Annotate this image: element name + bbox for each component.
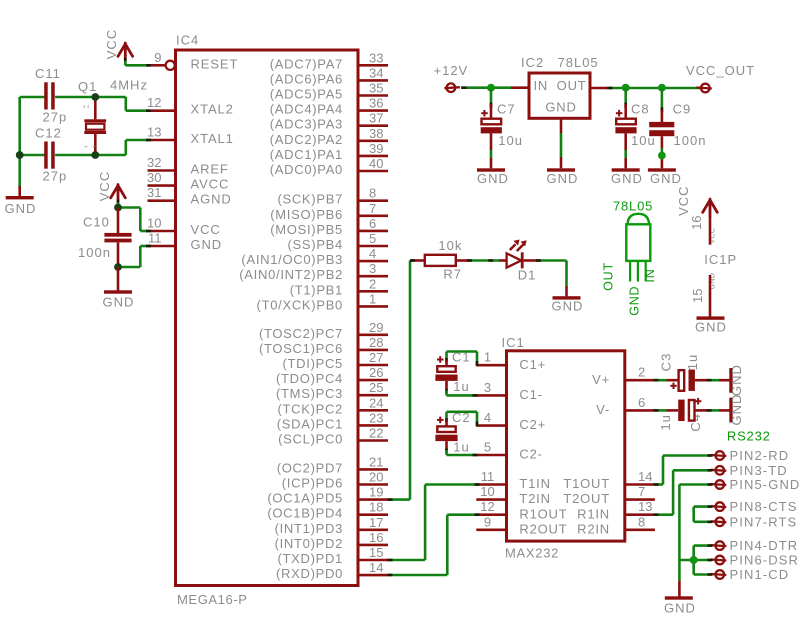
IC4 pin 13 XTAL1 xyxy=(147,125,234,147)
svg-text:IN: IN xyxy=(643,268,657,282)
svg-text:20: 20 xyxy=(369,470,383,485)
IC4 pin 21 (OC2)PD7 xyxy=(277,454,388,475)
svg-text:26: 26 xyxy=(369,365,383,380)
svg-text:V+: V+ xyxy=(592,372,610,387)
svg-text:(AIN0/INT2)PB2: (AIN0/INT2)PB2 xyxy=(239,267,343,282)
svg-text:(T0/XCK)PB0: (T0/XCK)PB0 xyxy=(257,297,343,312)
svg-text:GND: GND xyxy=(650,171,682,186)
ground below D1 xyxy=(552,296,584,313)
IC4 pin 39 (ADC1)PA1 xyxy=(270,141,388,162)
svg-text:32: 32 xyxy=(147,155,161,170)
svg-text:C7: C7 xyxy=(497,102,516,117)
voltage regulator IC2 78L05 xyxy=(521,55,599,118)
svg-text:GND: GND xyxy=(547,171,579,186)
svg-text:4: 4 xyxy=(369,246,376,261)
ground right of C3 (rotated) xyxy=(729,364,744,396)
IC4 pin 38 (ADC2)PA2 xyxy=(270,126,388,147)
svg-text:GND: GND xyxy=(477,171,509,186)
IC4 pin 12 XTAL2 xyxy=(147,95,234,117)
svg-text:C3: C3 xyxy=(659,353,674,372)
svg-text:16: 16 xyxy=(369,530,383,545)
svg-text:T1OUT: T1OUT xyxy=(563,476,610,491)
svg-text:‹‹: ‹‹ xyxy=(83,102,91,111)
connector PIN6-DSR xyxy=(711,553,799,568)
svg-text:(SS)PB4: (SS)PB4 xyxy=(288,237,343,252)
IC4 pin 2 (T1)PB1 xyxy=(290,276,388,297)
svg-text:R1IN: R1IN xyxy=(577,506,610,521)
svg-text:6: 6 xyxy=(638,395,645,410)
IC4 pin 17 (INT1)PD3 xyxy=(275,515,388,536)
svg-text:11: 11 xyxy=(148,231,162,246)
svg-text:22: 22 xyxy=(369,426,383,441)
IC4 pin 15 (TXD)PD1 xyxy=(277,545,388,566)
IC4 pin 10 VCC xyxy=(147,216,221,238)
svg-text:C1: C1 xyxy=(452,350,471,365)
svg-text:(INT1)PD3: (INT1)PD3 xyxy=(275,521,343,536)
svg-text:(TDO)PC4: (TDO)PC4 xyxy=(276,371,343,386)
resistor R7 10k xyxy=(410,238,470,281)
svg-text:23: 23 xyxy=(369,410,383,425)
microcontroller IC4 MEGA16-P body xyxy=(176,33,359,608)
svg-text:R1OUT: R1OUT xyxy=(519,506,567,521)
svg-text:10: 10 xyxy=(147,216,161,231)
svg-text:AVCC: AVCC xyxy=(191,177,230,192)
IC1 pin 7 T2OUT xyxy=(563,484,655,506)
svg-text:10u: 10u xyxy=(498,133,523,148)
ground below crystal rail xyxy=(5,186,37,216)
wire R1IN to PIN3-TD xyxy=(654,469,713,516)
svg-text:4MHz: 4MHz xyxy=(110,78,148,93)
svg-text:R2OUT: R2OUT xyxy=(519,521,567,536)
svg-text:C12: C12 xyxy=(35,126,62,141)
IC4 pin 8 (SCK)PB7 xyxy=(277,186,388,207)
IC4 pin 1 (T0/XCK)PB0 xyxy=(257,291,388,312)
IC4 pin 25 (TMS)PC3 xyxy=(276,380,388,401)
svg-text:PIN6-DSR: PIN6-DSR xyxy=(730,553,799,568)
svg-text:(MISO)PB6: (MISO)PB6 xyxy=(270,207,343,222)
IC4 pin 16 (INT0)PD2 xyxy=(275,530,388,551)
svg-text:VCC: VCC xyxy=(676,185,691,215)
IC1 pin 8 R2IN xyxy=(577,514,655,536)
IC1P label xyxy=(704,252,737,267)
svg-text:GND: GND xyxy=(729,364,744,396)
svg-text:19: 19 xyxy=(369,485,383,500)
svg-text:12: 12 xyxy=(147,95,161,110)
svg-text:IN: IN xyxy=(534,78,549,93)
svg-text:R2IN: R2IN xyxy=(577,521,610,536)
svg-text:3: 3 xyxy=(484,380,491,395)
svg-text:C2: C2 xyxy=(452,410,471,425)
svg-text:(SDA)PC1: (SDA)PC1 xyxy=(277,416,343,431)
svg-text:GND: GND xyxy=(628,286,642,316)
regulator package 78L05 (TO-92) xyxy=(602,199,657,316)
ground below C9 xyxy=(648,168,682,186)
svg-text:C8: C8 xyxy=(631,102,650,117)
svg-text:37: 37 xyxy=(369,111,383,126)
crystal Q1 4MHz xyxy=(78,78,148,156)
svg-text:27p: 27p xyxy=(43,110,68,125)
IC4 pin 18 (OC1B)PD4 xyxy=(267,500,388,521)
IC4 pin 14 (RXD)PD0 xyxy=(276,560,388,581)
net label RS232 xyxy=(727,428,771,443)
IC4 pin 37 (ADC3)PA3 xyxy=(270,111,388,132)
svg-text:GND: GND xyxy=(545,99,576,114)
svg-text:78L05: 78L05 xyxy=(558,55,599,70)
wire XTAL bottom rail xyxy=(20,139,151,155)
svg-text:VCC_OUT: VCC_OUT xyxy=(686,63,755,78)
svg-text:9: 9 xyxy=(484,514,491,529)
IC4 pin 28 (TOSC1)PC6 xyxy=(259,335,388,356)
wire IC4 pin19 to R7 xyxy=(388,261,413,501)
svg-text:Q1: Q1 xyxy=(78,79,97,94)
svg-text:OUT: OUT xyxy=(602,262,616,291)
wire IC2 OUT to VCC_OUT xyxy=(590,87,700,90)
wire C10 to pin11 xyxy=(118,245,151,267)
svg-text:GND: GND xyxy=(103,295,135,310)
svg-text:100n: 100n xyxy=(78,245,111,260)
svg-text:C2+: C2+ xyxy=(519,417,546,432)
svg-text:27p: 27p xyxy=(43,169,68,184)
connector PIN7-RTS xyxy=(711,514,797,529)
IC1 pin 9 R2OUT xyxy=(476,514,567,536)
svg-text:(OC1A)PD5: (OC1A)PD5 xyxy=(267,491,343,506)
IC1 pin 4 C2+ xyxy=(476,410,546,432)
IC1 pin 11 T1IN xyxy=(476,469,550,491)
capacitor C8 10u xyxy=(615,88,655,169)
svg-text:2: 2 xyxy=(638,365,645,380)
svg-text:17: 17 xyxy=(369,515,383,530)
svg-text:(OC2)PD7: (OC2)PD7 xyxy=(277,460,343,475)
svg-text:(TXD)PD1: (TXD)PD1 xyxy=(277,551,343,566)
svg-text:PIN5-GND: PIN5-GND xyxy=(730,477,801,492)
capacitor C3 1u xyxy=(659,353,700,391)
RS232 driver IC1 MAX232 body xyxy=(502,335,625,561)
capacitor C1 1u xyxy=(435,350,478,397)
junction DSR group xyxy=(690,556,698,564)
svg-text:3: 3 xyxy=(369,261,376,276)
IC4 pin 5 (SS)PB4 xyxy=(288,231,388,252)
IC1 pin 10 T2IN xyxy=(476,484,550,506)
IC4 pin 11 GND xyxy=(148,231,223,253)
svg-text:(INT0)PD2: (INT0)PD2 xyxy=(275,536,343,551)
junction C7 tap xyxy=(487,84,495,92)
svg-text:40: 40 xyxy=(369,156,383,171)
svg-text:V-: V- xyxy=(596,402,610,417)
IC1 pin 14 T1OUT xyxy=(563,469,655,491)
wire C4 to ground xyxy=(695,409,730,412)
svg-text:(TOSC1)PC6: (TOSC1)PC6 xyxy=(259,341,343,356)
ground right of C4 (rotated) xyxy=(729,394,744,426)
svg-text:12: 12 xyxy=(480,499,494,514)
wire D1 to ground xyxy=(536,259,567,296)
svg-text:+12V: +12V xyxy=(434,63,469,78)
svg-text:14: 14 xyxy=(638,469,652,484)
wire PIN8-CTS / PIN7-RTS loop xyxy=(694,505,713,523)
IC4 pin 30 AVCC xyxy=(147,170,229,192)
IC4 pin 26 (TDO)PC4 xyxy=(276,365,388,386)
svg-text:D1: D1 xyxy=(518,268,537,283)
svg-text:34: 34 xyxy=(369,65,383,80)
IC4 pin 33 (ADC7)PA7 xyxy=(270,50,388,71)
svg-text:8: 8 xyxy=(369,186,376,201)
supply VCC at IC1P pin16 xyxy=(676,185,717,244)
svg-text:(ICP)PD6: (ICP)PD6 xyxy=(282,476,343,491)
svg-text:8: 8 xyxy=(638,514,645,529)
IC4 pin 40 (ADC0)PA0 xyxy=(270,156,388,177)
wire PIN5-GND to ground xyxy=(679,483,712,596)
svg-text:GND: GND xyxy=(5,201,37,216)
LED D1 xyxy=(499,240,538,283)
IC4 pin 24 (TCK)PC2 xyxy=(277,395,388,416)
IC4 pin 32 AREF xyxy=(147,155,229,177)
svg-text:38: 38 xyxy=(369,126,383,141)
svg-text:6: 6 xyxy=(369,216,376,231)
connector PIN5-GND xyxy=(711,477,801,492)
svg-text:VCC: VCC xyxy=(191,222,221,237)
svg-text:(TMS)PC3: (TMS)PC3 xyxy=(276,386,343,401)
svg-text:R7: R7 xyxy=(443,266,462,281)
wire V+ to C3 xyxy=(654,379,679,382)
junction VCC/C10 top xyxy=(114,204,122,212)
svg-text:18: 18 xyxy=(369,500,383,515)
svg-text:PIN3-TD: PIN3-TD xyxy=(730,463,788,478)
svg-text:GND: GND xyxy=(695,320,727,335)
wire VCC to pin10 xyxy=(118,208,151,233)
svg-text:PIN4-DTR: PIN4-DTR xyxy=(730,538,799,553)
svg-text:11: 11 xyxy=(481,469,495,484)
IC1P pin15 to ground xyxy=(690,273,727,335)
svg-text:T1IN: T1IN xyxy=(519,476,550,491)
svg-text:10k: 10k xyxy=(438,238,462,253)
svg-text:T2IN: T2IN xyxy=(519,491,550,506)
svg-text:31: 31 xyxy=(147,185,161,200)
IC4 pin 34 (ADC6)PA6 xyxy=(270,65,388,86)
IC4 pin 3 (AIN0/INT2)PB2 xyxy=(239,261,388,282)
junction Q1 bottom xyxy=(91,151,99,159)
svg-text:MEGA16-P: MEGA16-P xyxy=(177,592,248,607)
wire left vertical rail to ground xyxy=(18,97,21,186)
capacitor C2 1u xyxy=(435,410,478,456)
IC4 pin 19 (OC1A)PD5 xyxy=(267,485,388,506)
svg-text:RESET: RESET xyxy=(191,56,239,71)
svg-text:13: 13 xyxy=(147,125,161,140)
svg-text:4: 4 xyxy=(484,410,491,425)
svg-text:13: 13 xyxy=(638,499,652,514)
capacitor C4 1u xyxy=(658,398,703,432)
svg-text:PIN8-CTS: PIN8-CTS xyxy=(730,499,798,514)
supply VCC at IC4 power xyxy=(97,171,125,208)
connector PIN2-RD xyxy=(711,448,789,463)
svg-text:24: 24 xyxy=(369,395,383,410)
svg-text:(TOSC2)PC7: (TOSC2)PC7 xyxy=(259,326,343,341)
ground below RS232 xyxy=(664,596,696,615)
svg-text:OUT: OUT xyxy=(557,78,587,93)
svg-text:33: 33 xyxy=(369,50,383,65)
svg-text:AGND: AGND xyxy=(191,192,232,207)
svg-text:14: 14 xyxy=(369,560,383,575)
capacitor C10 100n xyxy=(78,208,132,268)
svg-text:10: 10 xyxy=(480,484,494,499)
svg-text:100n: 100n xyxy=(674,133,707,148)
svg-text:(T1)PB1: (T1)PB1 xyxy=(290,282,343,297)
wire TXD pin15 to T1IN xyxy=(388,483,480,561)
svg-text:1u: 1u xyxy=(658,414,673,430)
svg-text:MAX232: MAX232 xyxy=(505,546,559,561)
svg-text:(SCL)PC0: (SCL)PC0 xyxy=(278,432,343,447)
svg-text:7: 7 xyxy=(638,484,645,499)
capacitor C9 100n xyxy=(649,88,706,169)
svg-text:PIN7-RTS: PIN7-RTS xyxy=(730,514,798,529)
IC4 pin 6 (MOSI)PB5 xyxy=(270,216,388,237)
ground below C8 xyxy=(611,168,643,186)
svg-text:(ADC6)PA6: (ADC6)PA6 xyxy=(270,71,343,86)
wire V- to C4 xyxy=(654,409,679,412)
supply VCC at RESET xyxy=(104,29,151,67)
IC1 pin 13 R1IN xyxy=(577,499,655,521)
svg-text:2: 2 xyxy=(369,276,376,291)
svg-text:PIN1-CD: PIN1-CD xyxy=(730,567,790,582)
IC4 pin 31 AGND xyxy=(147,185,232,207)
svg-text:(ADC5)PA5: (ADC5)PA5 xyxy=(270,87,343,102)
svg-text:7: 7 xyxy=(369,201,376,216)
svg-text:1u: 1u xyxy=(453,379,469,394)
svg-text:(TCK)PC2: (TCK)PC2 xyxy=(277,401,343,416)
svg-text:XTAL2: XTAL2 xyxy=(191,102,234,117)
svg-text:IC1: IC1 xyxy=(502,335,525,350)
wire +12V to IC2 IN xyxy=(461,86,529,89)
junction C9 bottom xyxy=(658,152,666,160)
svg-text:GND: GND xyxy=(611,171,643,186)
svg-text:(RXD)PD0: (RXD)PD0 xyxy=(276,566,343,581)
svg-text:C1-: C1- xyxy=(519,387,542,402)
wire XTAL top rail xyxy=(20,97,151,112)
connector PIN1-CD xyxy=(711,567,789,582)
wire PIN4-DTR / PIN6-DSR / PIN1-CD group xyxy=(679,544,712,576)
IC4 pin 9 RESET xyxy=(148,50,239,72)
svg-text:IC2: IC2 xyxy=(521,55,544,70)
svg-text:35: 35 xyxy=(369,81,383,96)
junction C8 tap xyxy=(622,84,630,92)
svg-text:21: 21 xyxy=(369,454,383,469)
wire R7 to D1 xyxy=(467,259,499,262)
svg-text:28: 28 xyxy=(369,335,383,350)
wire T1OUT to PIN2-RD xyxy=(654,454,713,486)
svg-text:36: 36 xyxy=(369,96,383,111)
svg-text:(ADC0)PA0: (ADC0)PA0 xyxy=(270,162,343,177)
IC1 pin 5 C2- xyxy=(476,440,542,462)
svg-text:IC4: IC4 xyxy=(176,33,199,48)
svg-text:PIN2-RD: PIN2-RD xyxy=(730,448,790,463)
capacitor C11 27p xyxy=(35,66,67,125)
IC1 pin 1 C1+ xyxy=(476,350,546,372)
svg-text:(SCK)PB7: (SCK)PB7 xyxy=(277,192,343,207)
svg-text:27: 27 xyxy=(369,350,383,365)
svg-text:(ADC4)PA4: (ADC4)PA4 xyxy=(270,102,343,117)
svg-text:29: 29 xyxy=(369,320,383,335)
IC4 pin 36 (ADC4)PA4 xyxy=(270,96,388,117)
svg-text:C2-: C2- xyxy=(519,447,542,462)
IC4 pin 29 (TOSC2)PC7 xyxy=(259,320,388,341)
connector VCC_OUT xyxy=(686,63,755,92)
svg-text:XTAL1: XTAL1 xyxy=(191,131,234,146)
connector PIN8-CTS xyxy=(711,499,798,514)
capacitor C12 27p xyxy=(35,126,67,184)
svg-text:C11: C11 xyxy=(35,66,61,81)
svg-text:GND: GND xyxy=(664,601,696,616)
wire RXD pin14 to R1OUT xyxy=(388,513,480,576)
svg-text:(OC1B)PD4: (OC1B)PD4 xyxy=(267,506,343,521)
svg-text:15: 15 xyxy=(369,545,383,560)
ground below IC2 xyxy=(547,118,579,186)
capacitor C7 10u xyxy=(481,88,523,169)
svg-text:RS232: RS232 xyxy=(727,428,771,443)
svg-text:AREF: AREF xyxy=(191,162,229,177)
ground below C7 xyxy=(477,168,509,186)
svg-text:(MOSI)PB5: (MOSI)PB5 xyxy=(270,222,343,237)
svg-text:1: 1 xyxy=(369,291,376,306)
svg-text:5: 5 xyxy=(484,440,491,455)
wire C3 to ground xyxy=(695,379,730,382)
svg-text:GND: GND xyxy=(552,299,584,314)
svg-text:C1+: C1+ xyxy=(519,357,546,372)
svg-text:IC1P: IC1P xyxy=(704,252,737,267)
svg-text:30: 30 xyxy=(147,170,161,185)
connector PIN4-DTR xyxy=(711,538,798,553)
connector PIN3-TD xyxy=(711,463,788,478)
svg-text:(ADC1)PA1: (ADC1)PA1 xyxy=(270,147,343,162)
svg-text:16: 16 xyxy=(689,215,704,229)
IC4 pin 20 (ICP)PD6 xyxy=(282,470,388,491)
junction C9 tap xyxy=(658,84,666,92)
svg-text:VCC: VCC xyxy=(104,29,119,59)
junction C10 bottom xyxy=(114,263,122,271)
ground below C10 xyxy=(103,267,135,310)
svg-text:C10: C10 xyxy=(83,215,110,230)
svg-text:39: 39 xyxy=(369,141,383,156)
IC4 pin 27 (TDI)PC5 xyxy=(283,350,389,371)
IC4 pin 22 (SCL)PC0 xyxy=(278,426,388,447)
svg-text:9: 9 xyxy=(154,50,161,65)
svg-text:⌄⌄: ⌄⌄ xyxy=(83,141,99,150)
svg-text:(AIN1/OC0)PB3: (AIN1/OC0)PB3 xyxy=(241,252,343,267)
junction Q1 top xyxy=(91,93,99,101)
svg-text:1: 1 xyxy=(484,350,491,365)
IC1 pin 6 V- xyxy=(596,395,655,417)
IC1 pin 3 C1- xyxy=(476,380,542,402)
IC4 pin 7 (MISO)PB6 xyxy=(270,201,388,222)
connector +12V xyxy=(434,63,469,92)
svg-text:78L05: 78L05 xyxy=(613,199,653,214)
IC4 pin 23 (SDA)PC1 xyxy=(277,410,388,431)
svg-text:C9: C9 xyxy=(673,102,692,117)
IC4 pin 4 (AIN1/OC0)PB3 xyxy=(241,246,388,267)
svg-text:15: 15 xyxy=(690,288,705,302)
IC4 pin 35 (ADC5)PA5 xyxy=(270,81,388,102)
svg-text:(ADC3)PA3: (ADC3)PA3 xyxy=(270,117,343,132)
svg-text:1u: 1u xyxy=(685,354,700,370)
IC1 pin 2 V+ xyxy=(592,365,655,387)
svg-text:(ADC7)PA7: (ADC7)PA7 xyxy=(270,56,343,71)
junction crystal bottom-left xyxy=(16,151,24,159)
svg-text:(TDI)PC5: (TDI)PC5 xyxy=(283,356,344,371)
svg-text:GND: GND xyxy=(729,394,744,426)
svg-text:1u: 1u xyxy=(453,440,469,455)
svg-text:5: 5 xyxy=(369,231,376,246)
svg-text:(ADC2)PA2: (ADC2)PA2 xyxy=(270,132,343,147)
svg-text:T2OUT: T2OUT xyxy=(563,491,610,506)
svg-text:25: 25 xyxy=(369,380,383,395)
IC1 pin 12 R1OUT xyxy=(476,499,567,521)
